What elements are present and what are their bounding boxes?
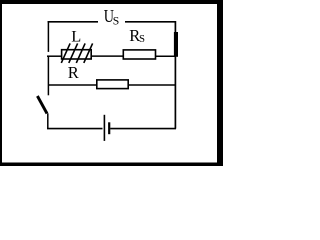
wire bottom right segment [110,128,176,130]
wire switch to bottom [47,113,49,128]
label US [104,6,120,28]
wire right vertical [174,21,176,129]
wire top left segment [48,21,98,23]
battery [104,115,109,141]
wire right vertical thick segment [174,32,178,57]
wire row2 left [48,84,97,86]
wire row1 left [47,55,62,57]
wire bottom left segment [47,128,103,130]
wire left vertical upper [47,21,49,52]
resistor RS [123,50,155,59]
wire row1 right [156,55,177,57]
wire row2 right [128,84,176,86]
wire left vertical lower [47,56,49,96]
label RS [129,26,145,45]
resistor R [97,80,128,89]
svg-text:R: R [68,63,79,82]
switch S blade [37,96,47,114]
svg-text:L: L [71,28,81,45]
svg-text:S: S [139,33,145,45]
svg-text:S: S [113,14,120,28]
wire row1 middle [91,55,123,57]
inductor L [61,43,92,63]
wire top right segment [125,21,176,23]
